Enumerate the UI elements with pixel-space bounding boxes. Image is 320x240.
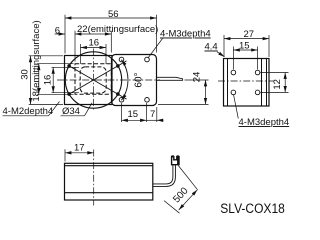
dot circle-cone TR [116, 64, 120, 68]
bottom view body [65, 163, 153, 200]
flange rounded rect main view [112, 55, 157, 106]
60 degree arc [121, 60, 128, 101]
dim 500 ext lower [164, 201, 180, 214]
dot circle-cone BR [116, 92, 120, 96]
right view hole BR [255, 90, 260, 95]
right view hole BL [231, 90, 236, 95]
svg-text:Ø34: Ø34 [62, 106, 80, 117]
svg-text:22(emittingsurface): 22(emittingsurface) [77, 24, 158, 35]
right view inner left line [227, 59, 229, 107]
leader O34 [85, 103, 93, 116]
leader 4.4 [217, 52, 225, 57]
leader 4-M3depth4 top [148, 39, 163, 59]
dim 18 [37, 63, 74, 65]
svg-text:7: 7 [150, 109, 155, 120]
M3 hole top-right main [145, 57, 150, 62]
leader 4-M2depth4 [49, 102, 60, 116]
right view center line [218, 80, 274, 82]
right view square [224, 59, 270, 107]
dim 7 bottom main [147, 119, 157, 121]
right view hole TL [231, 70, 236, 75]
dim 6 [55, 33, 66, 35]
inner 16 rounded dashed rect [80, 67, 106, 93]
center line vertical main view [93, 49, 95, 112]
bottom view inner bottom line [65, 192, 153, 194]
dim 30 [29, 55, 63, 57]
bottom view inner top line [65, 165, 153, 167]
dim 16 top [80, 44, 82, 64]
cable main view [157, 77, 183, 80]
svg-text:4-M2depth4: 4-M2depth4 [3, 106, 54, 117]
M3 hole bottom-right main [145, 98, 150, 103]
dim 15 bottom main [121, 103, 123, 122]
svg-text:17: 17 [74, 143, 85, 154]
dim 17 [64, 149, 66, 161]
svg-text:15: 15 [239, 41, 250, 52]
cable bottom view [153, 165, 173, 184]
connector bottom view [172, 157, 179, 165]
svg-text:24: 24 [192, 72, 203, 83]
svg-text:12: 12 [272, 79, 283, 90]
svg-text:16: 16 [43, 75, 54, 86]
svg-text:16: 16 [89, 38, 100, 49]
right view inner right line [261, 59, 263, 107]
svg-text:6: 6 [55, 26, 60, 37]
svg-text:30: 30 [20, 69, 31, 80]
cone line A [69, 61, 126, 94]
connector pin shade [177, 157, 179, 164]
svg-text:15: 15 [128, 109, 139, 120]
dim 56 [64, 15, 66, 54]
M3 hole top-left main [119, 57, 124, 62]
dot circle-cone TL [67, 64, 71, 68]
cone line B [69, 66, 126, 99]
svg-text:56: 56 [108, 9, 119, 20]
dim 12 [261, 72, 289, 74]
dim 24 [185, 79, 209, 81]
lens circle O34 [65, 52, 121, 108]
svg-text:27: 27 [244, 29, 255, 40]
body outline main view [65, 56, 113, 105]
dim 27 [223, 35, 225, 57]
center line horizontal main view [57, 79, 160, 81]
M3 hole bottom-left main [119, 98, 124, 103]
right view inner right line 2 [266, 59, 268, 107]
connector prong caps [171, 155, 174, 157]
svg-text:500: 500 [171, 185, 191, 205]
dim 500 ext upper [178, 166, 197, 190]
dim 22 line [74, 31, 76, 62]
svg-text:18(emittingsurface): 18(emittingsurface) [31, 20, 42, 101]
svg-text:4-M3depth4: 4-M3depth4 [239, 117, 290, 128]
svg-text:60°: 60° [133, 72, 144, 87]
dot circle-cone BL [67, 92, 71, 96]
dim 16 left [52, 66, 80, 68]
bottom view center line [93, 150, 95, 206]
right view hole TR [255, 70, 260, 75]
dim 15 right view [232, 47, 234, 70]
leader 4-M3depth4 right view [234, 95, 239, 119]
dim 500 line [179, 190, 198, 210]
svg-text:4.4: 4.4 [205, 42, 218, 53]
emitting surface dashed rect [75, 64, 111, 95]
svg-text:SLV-COX18: SLV-COX18 [220, 201, 284, 216]
svg-text:4-M3depth4: 4-M3depth4 [160, 29, 211, 40]
